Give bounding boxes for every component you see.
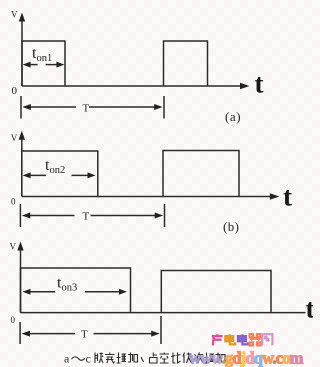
row (a) vertical axis <box>21 19 23 86</box>
svg-text:V: V <box>10 242 17 252</box>
row (a) period arrow right half <box>89 106 157 108</box>
svg-text:t: t <box>255 68 264 98</box>
row (c) vertical axis <box>20 248 22 313</box>
row (c) horizontal time axis <box>21 312 306 314</box>
svg-text:T: T <box>81 329 88 341</box>
row (b) pulse 2 <box>163 151 239 197</box>
row (b) horizontal time axis <box>22 196 271 198</box>
row (a) pulse 1 <box>22 41 65 86</box>
svg-text:a: a <box>64 352 70 366</box>
row (b) pulse width left arrow <box>26 174 46 176</box>
svg-text:(a): (a) <box>225 109 241 124</box>
svg-text:0: 0 <box>11 315 16 325</box>
row (c) period right tick <box>160 316 162 344</box>
row (a) period arrow left half <box>28 106 76 108</box>
row (b) vertical axis arrowhead <box>19 131 25 140</box>
svg-text:c: c <box>86 352 91 366</box>
row (a) pulse width left arrow <box>26 64 38 66</box>
svg-text:ton1: ton1 <box>32 45 52 64</box>
row (a) period left tick <box>20 96 22 119</box>
watermark site-name CJK glyphs: 广电电器网 <box>212 334 273 345</box>
row (a) horizontal time axis <box>22 85 242 87</box>
svg-text:T: T <box>83 103 90 115</box>
svg-text:t: t <box>283 182 292 212</box>
svg-text:ton3: ton3 <box>57 275 77 294</box>
row (c) period left tick <box>19 322 21 344</box>
row (b) period arrow left half <box>27 215 75 217</box>
svg-text:0: 0 <box>11 197 16 207</box>
row (c) pulse width right arrow <box>85 291 120 293</box>
svg-text:www.gdjdqw.com: www.gdjdqw.com <box>189 349 304 367</box>
row (a) vertical axis arrowhead <box>19 13 25 22</box>
row (c) pulse 2 <box>161 271 271 313</box>
row (c) pulse 1 <box>21 268 131 313</box>
row (b) period arrow right half <box>91 215 159 217</box>
row (c) period arrow right half <box>94 333 155 335</box>
caption tilde <box>72 357 85 360</box>
row (a) pulse 2 <box>164 41 208 86</box>
row (a) period right tick <box>163 96 165 119</box>
svg-text:V: V <box>11 9 18 19</box>
watermark url colorful text <box>189 349 304 367</box>
row (a) time axis arrowhead <box>240 83 250 89</box>
row (b) pulse 1 <box>22 151 98 197</box>
row (b) period right tick <box>164 204 166 227</box>
row (b) vertical axis <box>21 137 23 197</box>
row (b) time axis arrowhead <box>270 193 280 199</box>
svg-text:ton2: ton2 <box>45 157 65 176</box>
row (c) pulse width left arrow <box>26 291 55 293</box>
svg-text:V: V <box>11 133 18 143</box>
row (a) pulse width right arrow <box>46 64 58 66</box>
row (b) pulse width right arrow <box>72 174 90 176</box>
row (c) vertical axis arrowhead <box>17 242 23 251</box>
row (c) period arrow left half <box>27 333 75 335</box>
caption pseudo CJK glyphs: 脉宽增加、占空比依次增加 <box>95 353 226 364</box>
svg-text:0: 0 <box>12 85 18 97</box>
svg-text:t: t <box>306 294 314 324</box>
svg-text:T: T <box>83 211 90 223</box>
row (b) period left tick <box>19 204 21 227</box>
svg-text:(b): (b) <box>223 219 239 234</box>
